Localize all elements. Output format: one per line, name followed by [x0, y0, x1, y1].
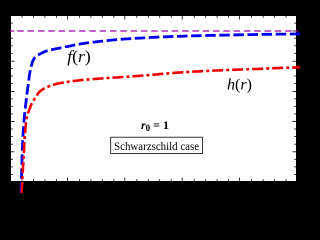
svg-text:r0 = 1: r0 = 1 [141, 118, 169, 133]
axes frame [11, 16, 297, 182]
h(r) label [227, 76, 252, 94]
svg-text:Schwarzschild case: Schwarzschild case [114, 139, 199, 153]
f(r) label [64, 47, 94, 66]
svg-text:f(r): f(r) [67, 47, 91, 66]
Schwarzschild case label [111, 137, 203, 153]
f(r) curve (blue dashed) [21, 34, 300, 193]
h(r) curve (red dash-dot) [22, 67, 300, 193]
plot area [10, 15, 297, 182]
axis ticks [11, 16, 297, 182]
svg-text:h(r): h(r) [227, 77, 252, 94]
r0 = 1 label [138, 118, 171, 133]
asymptote line (purple dashed) [10, 30, 298, 32]
